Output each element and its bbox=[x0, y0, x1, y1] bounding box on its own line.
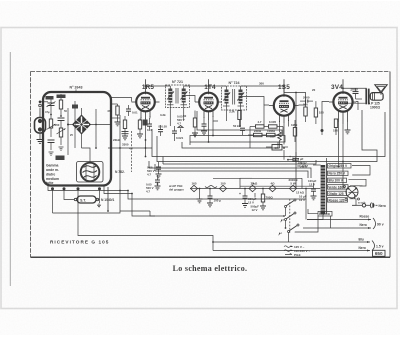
detector load cluster under 1S5 row1 bbox=[250, 120, 283, 128]
filament chain wire bbox=[190, 188, 320, 190]
left column trimmer capacitors inside tuner bbox=[47, 96, 56, 155]
grid stopper 500 between 1S5 and 3V4 bbox=[303, 100, 308, 122]
top interstage wire T1 to 1T4 to T2 bbox=[184, 85, 227, 87]
converter coupling cap 0.01 bbox=[126, 105, 138, 116]
tube V3 1S5 bbox=[269, 79, 299, 123]
junction dots on top wires bbox=[145, 85, 344, 89]
top interstage wire 1R5 to T1 bbox=[146, 85, 171, 87]
wire colour label Grigio 250 V bbox=[328, 164, 352, 169]
IF transformer T2 N.724 bbox=[222, 81, 265, 113]
top interstage wire T2 to 1S5 bbox=[241, 86, 285, 93]
mains voltage legend bbox=[284, 245, 311, 257]
wire colour label Nero 250 V bbox=[328, 171, 349, 176]
chain resistor R13 bbox=[269, 182, 276, 192]
junction dots mid bbox=[119, 135, 344, 243]
filament return line bbox=[240, 185, 314, 187]
HT bus wire B2 bbox=[157, 110, 377, 162]
mains switch S1c bbox=[288, 224, 300, 242]
chain resistor 700 vertical bbox=[260, 189, 273, 210]
rotary mains selector switch bbox=[344, 186, 366, 205]
coupling electrolytic 2uF 150V N.3057 bbox=[287, 157, 308, 168]
top interstage wire 1S5 to 3V4 grid stopper bbox=[284, 93, 306, 101]
IF amp cathode parts under 1T4 bbox=[192, 111, 207, 137]
wave-range text block (Gamma onde medie) bbox=[46, 164, 59, 186]
detector load cluster under 1S5 row2 bbox=[248, 127, 283, 142]
cap 0.021 bbox=[172, 126, 184, 141]
loudspeaker LS1 horn bbox=[375, 85, 387, 95]
output transformer T3 bbox=[345, 89, 370, 105]
tube V2 1T4 bbox=[195, 79, 222, 119]
battery switch S1a bbox=[285, 199, 297, 216]
converter grid resistor 47k bbox=[107, 104, 120, 126]
battery switch S1b bbox=[285, 212, 297, 228]
wire colour label Blu 100 V bbox=[328, 178, 347, 183]
speaker plug connectors (Nero) bbox=[352, 203, 386, 209]
tube V4 3V4 bbox=[329, 79, 356, 124]
power transformer T2 winding bbox=[313, 164, 327, 214]
wires from tuner bottom to lamp and bus bbox=[48, 186, 132, 213]
IF decoupling 0.05 500V 4.7 bbox=[177, 115, 185, 133]
wires power transformer to switch group bbox=[295, 158, 370, 232]
dial lamp box S.T. N1040/1 bbox=[74, 196, 114, 207]
HT bus wire B4 bbox=[149, 161, 311, 178]
output grid junction dot bbox=[321, 129, 324, 132]
page left rule line bbox=[9, 52, 11, 286]
IF transformer T1 N.721 bbox=[166, 80, 196, 112]
HT bus wire B3 bbox=[163, 157, 316, 165]
tuner terminals bottom bbox=[51, 187, 101, 213]
neutralizing loop around 1T4 bbox=[197, 111, 282, 136]
wire colour label Rosso 120 bbox=[328, 198, 348, 203]
top wire 3V4 plate to output bbox=[343, 87, 367, 89]
battery leads 1.5V (Blu / Nero) bbox=[213, 237, 384, 251]
edition mark 650 bbox=[373, 250, 386, 256]
junction dots on chain bbox=[199, 188, 307, 190]
chain electrolytic 100uF bbox=[207, 189, 221, 207]
secondary hum cap cluster left of switches bbox=[213, 178, 240, 188]
chain resistor R11 100 bbox=[205, 182, 227, 192]
wire colour label Bianco bbox=[318, 211, 332, 216]
screen dropper 3.3k 500V 4.7 labels under T1 bbox=[160, 113, 187, 118]
chain ground G1 bbox=[197, 189, 203, 203]
AVC feedback loop wire upper bbox=[182, 136, 285, 149]
screen dropper under T2 3.3k bbox=[229, 110, 245, 136]
filament chain feed label bbox=[169, 184, 184, 192]
HT bus wire B1 bbox=[152, 112, 385, 157]
wires tuner to converter grid bbox=[90, 98, 132, 149]
chain resistor R10 165 bbox=[191, 182, 198, 192]
battery leads 90V (Rosso / Nero) bbox=[303, 215, 384, 229]
arrow to battery minus bbox=[280, 219, 283, 223]
wire colour label Giallo 125 bbox=[328, 191, 347, 196]
ferrite antenna rod bbox=[35, 101, 49, 144]
loudspeaker driver AP125 bbox=[368, 93, 383, 110]
variable capacitor C1 (tuning gang) bbox=[73, 108, 90, 148]
tone corrector 12k 1/4W bbox=[296, 191, 307, 203]
AVC return vertical wire bbox=[295, 93, 297, 189]
first filter capacitor 16uF 150V bbox=[289, 152, 307, 169]
chain resistor R14 2000ohm 5W bbox=[288, 178, 298, 192]
screen feed wire from tuner to bottom bus bbox=[78, 115, 306, 251]
second column components inside tuner bbox=[58, 94, 74, 155]
coupling capacitor 2000 to speaker bbox=[350, 87, 362, 99]
electrolytic 500uF 12V bbox=[251, 193, 260, 212]
output stage electrolytic 100uF 12V bbox=[308, 179, 317, 200]
grid return wires under tubes bbox=[141, 100, 358, 135]
AVC line labels above 1S5 bbox=[259, 82, 316, 93]
oscillator grid leak cluster bbox=[113, 116, 133, 151]
screen bypass cap B 0.05 bbox=[145, 125, 168, 141]
AF grid resistor 1M bbox=[291, 120, 298, 142]
tuner inner wiring and extra parts bbox=[45, 95, 90, 161]
wire colour label Verde 160 V bbox=[328, 185, 349, 190]
grid leak resistor 180k column bbox=[314, 101, 324, 124]
series coupling cap 2000 to output grid bbox=[300, 95, 313, 102]
tuner unit box N.2643 bbox=[43, 86, 111, 186]
chain electrolytic 300uF 12V bbox=[239, 189, 257, 208]
output tube bias resistor 180 bbox=[333, 119, 351, 142]
schematic border frame bbox=[31, 72, 391, 258]
AF decoupling cluster 0.05 500V 4.7 under chain bbox=[146, 175, 161, 194]
detector plate load resistor 0.5 bbox=[270, 127, 281, 149]
converter anode components bbox=[137, 118, 152, 138]
volume pot 3k bbox=[240, 178, 258, 185]
intermediate vertical drop wires bbox=[146, 110, 344, 189]
detector filter 500 box bbox=[266, 145, 288, 151]
tube V1 1R5 bbox=[132, 79, 160, 119]
chain resistor R12 1k bbox=[249, 182, 256, 192]
decoupling cluster 0.05 500V 4.7 mid bbox=[147, 162, 162, 178]
oscillator coil circle bbox=[77, 157, 104, 182]
switch coupling dashed link bbox=[289, 199, 291, 234]
